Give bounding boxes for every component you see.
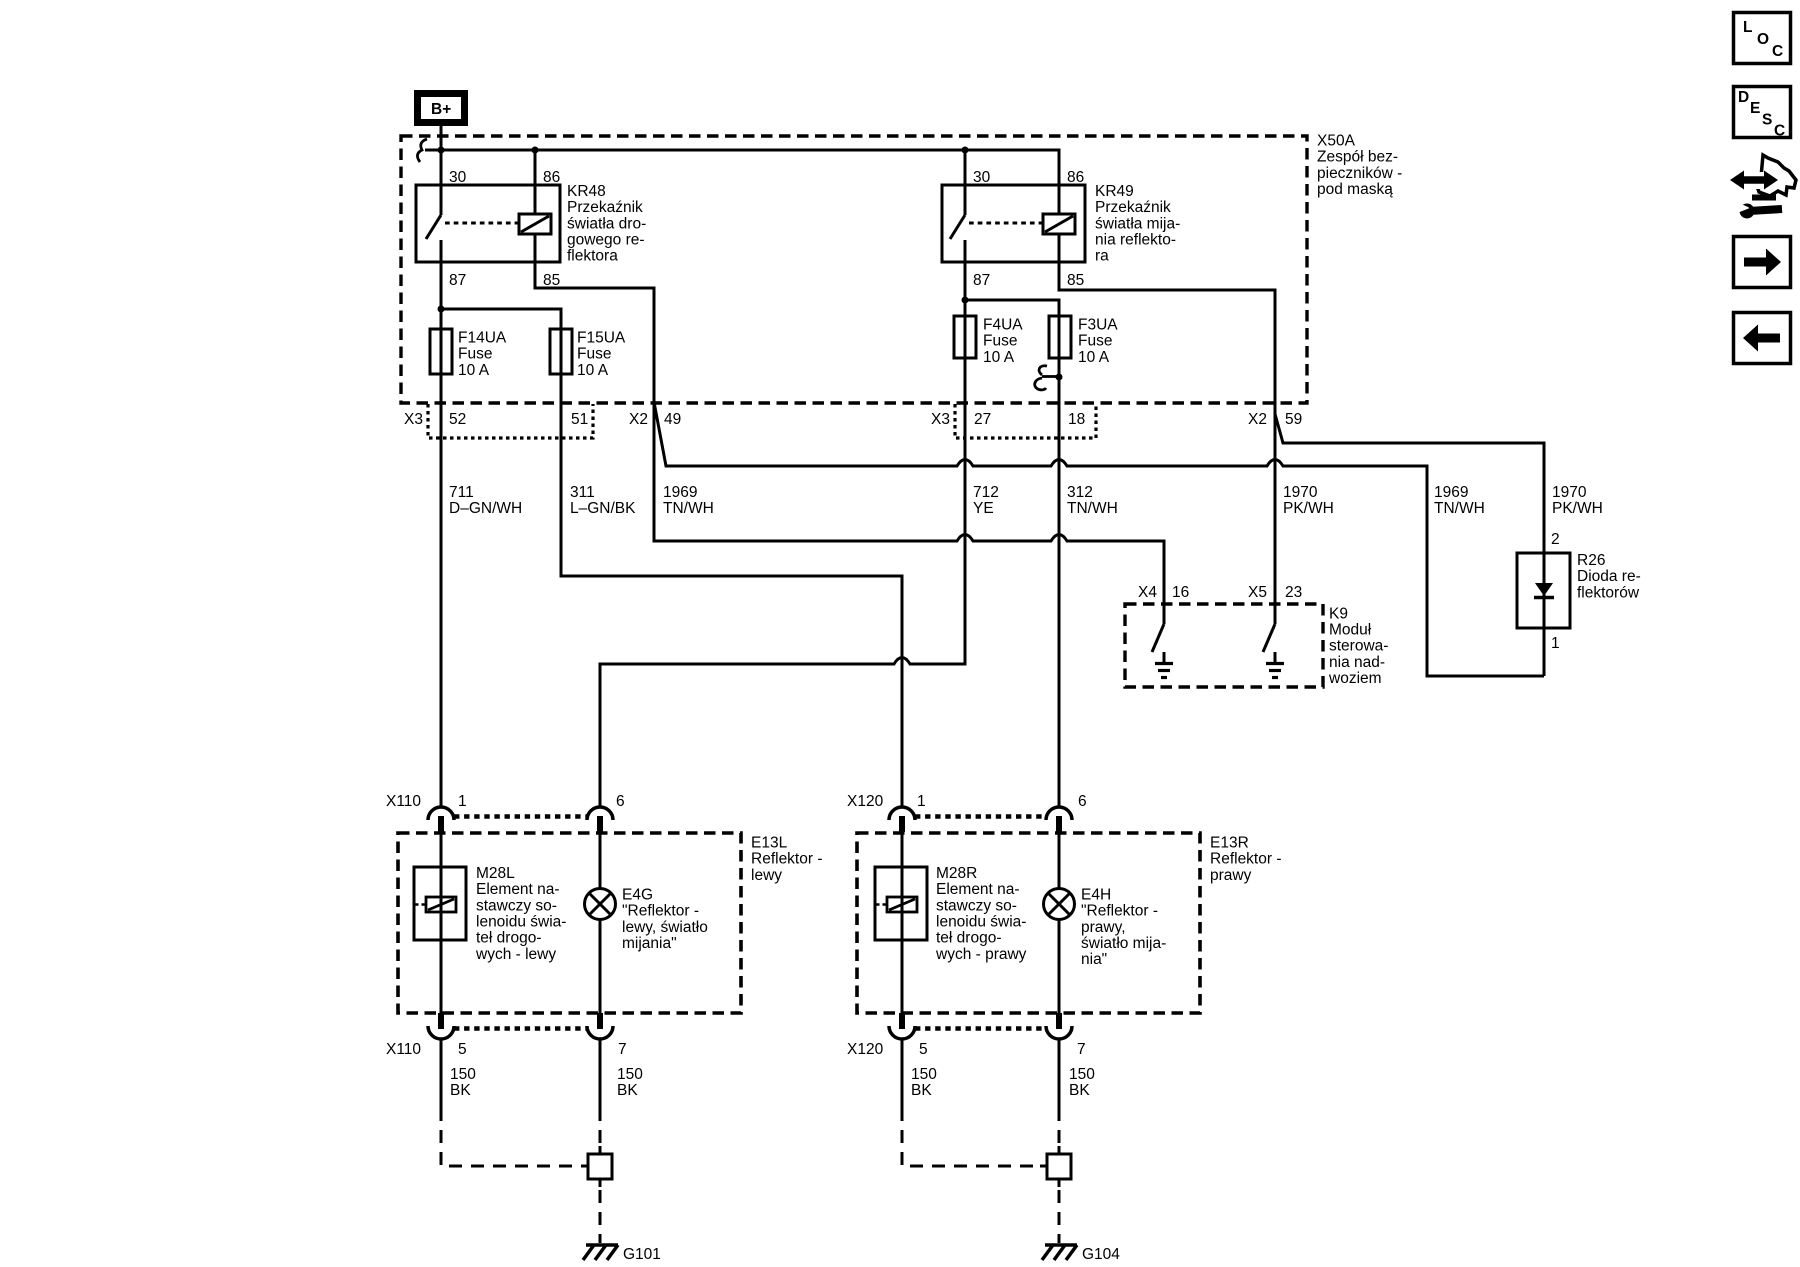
lamp E4H — [1044, 889, 1075, 920]
svg-text:Przekaźnik: Przekaźnik — [567, 199, 643, 216]
label K9 — [1328, 605, 1388, 687]
svg-text:światło mija-: światło mija- — [1081, 935, 1166, 952]
wire E4G column inside E13L — [599, 830, 602, 1013]
connector X110 pin 6 arc — [587, 807, 613, 820]
node KR49-87 / fuse branch — [962, 297, 969, 304]
label wire 711 D-GN/WH — [449, 484, 522, 517]
svg-text:KR48: KR48 — [567, 183, 606, 200]
label wire 712 YE — [973, 484, 999, 517]
connector X120 bottom pin 5 — [899, 1013, 905, 1029]
svg-text:51: 51 — [571, 411, 588, 428]
svg-text:10 A: 10 A — [1078, 349, 1110, 366]
connector X3 dotted box (52/51) — [428, 404, 593, 438]
svg-text:5: 5 — [458, 1041, 467, 1058]
label R26 — [1577, 552, 1641, 601]
ground symbol in K9 (X4) — [1155, 652, 1173, 678]
svg-text:18: 18 — [1068, 411, 1085, 428]
label wire 311 L-GN/BK — [570, 484, 636, 517]
svg-text:ra: ra — [1095, 248, 1109, 265]
label KR48 — [567, 183, 646, 265]
svg-text:16: 16 — [1172, 584, 1189, 601]
svg-text:mijania": mijania" — [622, 935, 677, 952]
label wire 150 BK (E4G ground) — [617, 1066, 643, 1099]
svg-text:stawczy so-: stawczy so- — [476, 897, 557, 914]
svg-text:X5: X5 — [1248, 584, 1267, 601]
wire B+ feed drop — [440, 124, 443, 150]
fuse block X50A dashed box — [401, 136, 1307, 403]
svg-text:312: 312 — [1067, 484, 1093, 501]
wire X2-49 pass-through diagonal / 1969 branch to R26 — [654, 402, 1544, 676]
wire X110-5 ground lead — [440, 1039, 443, 1108]
connector X120 bottom pin 7 — [1056, 1013, 1062, 1029]
switch in K9 at X5 — [1263, 624, 1275, 652]
svg-text:C: C — [1772, 43, 1783, 60]
svg-text:87: 87 — [449, 272, 466, 289]
svg-text:86: 86 — [1067, 169, 1084, 186]
svg-text:flektora: flektora — [567, 248, 618, 265]
fuse F14UA — [430, 329, 507, 379]
svg-text:K9: K9 — [1329, 605, 1348, 622]
wire X120-7 ground lead — [1058, 1039, 1061, 1108]
nav icon vehicle with wrench — [1730, 155, 1796, 219]
svg-text:sterowa-: sterowa- — [1329, 638, 1388, 655]
svg-text:59: 59 — [1285, 411, 1302, 428]
svg-text:Dioda re-: Dioda re- — [1577, 568, 1641, 585]
svg-text:Fuse: Fuse — [577, 346, 611, 363]
wire KR48-87 / 711 column — [440, 240, 443, 806]
svg-text:F4UA: F4UA — [983, 317, 1023, 334]
svg-text:nia reflekto-: nia reflekto- — [1095, 232, 1176, 249]
headlamp E13R dashed box — [857, 833, 1200, 1013]
wire dashed to splice (right M28R) — [902, 1108, 1043, 1166]
svg-text:30: 30 — [973, 169, 991, 186]
wire R26 pin 1 — [1543, 628, 1546, 676]
svg-text:Element na-: Element na- — [476, 881, 560, 898]
node bus/KR48-30 — [438, 147, 445, 154]
svg-text:1969: 1969 — [663, 484, 697, 501]
svg-text:30: 30 — [449, 169, 467, 186]
label wire 150 BK (M28L ground) — [450, 1066, 476, 1099]
diode R26 — [1517, 531, 1570, 652]
svg-text:E4H: E4H — [1081, 887, 1111, 904]
solenoid M28L — [414, 867, 466, 940]
svg-text:150: 150 — [450, 1066, 476, 1083]
svg-text:49: 49 — [664, 411, 681, 428]
svg-text:E4G: E4G — [622, 887, 653, 904]
wire X2-59 pass-through diagonal / 1970 to R26 pin 2 — [1275, 414, 1544, 553]
svg-text:Przekaźnik: Przekaźnik — [1095, 199, 1171, 216]
solenoid M28R — [875, 867, 927, 940]
wire X120-5 ground lead — [901, 1039, 904, 1108]
label wire 150 BK (M28R ground) — [911, 1066, 937, 1099]
svg-text:1: 1 — [917, 793, 926, 810]
svg-text:S: S — [1762, 112, 1772, 129]
svg-text:G101: G101 — [623, 1246, 661, 1263]
wire branch to F15UA / 311 column — [441, 309, 902, 806]
wire E4H column inside E13R — [1058, 830, 1061, 1013]
fuse F3UA — [1049, 316, 1118, 366]
svg-text:Reflektor -: Reflektor - — [1210, 851, 1282, 868]
svg-text:TN/WH: TN/WH — [663, 500, 714, 517]
label wire 1970 PK/WH right — [1552, 484, 1603, 517]
svg-text:85: 85 — [1067, 272, 1084, 289]
label wire 1970 PK/WH left — [1283, 484, 1334, 517]
svg-text:lewy: lewy — [751, 867, 782, 884]
wire dashed splice to G104 — [1058, 1190, 1061, 1243]
svg-text:E13R: E13R — [1210, 835, 1249, 852]
svg-text:B+: B+ — [431, 101, 451, 118]
svg-text:X4: X4 — [1138, 584, 1157, 601]
svg-text:wych - prawy: wych - prawy — [935, 946, 1027, 963]
svg-text:gowego re-: gowego re- — [567, 232, 645, 249]
connector X120 top row — [847, 793, 1087, 810]
svg-text:teł drogo-: teł drogo- — [936, 930, 1001, 947]
svg-text:85: 85 — [543, 272, 560, 289]
wire B+ bus — [425, 150, 1059, 214]
label connector row left — [404, 411, 681, 428]
svg-text:nia nad-: nia nad- — [1329, 654, 1385, 671]
connector X120 pin 6 arc — [1046, 807, 1072, 820]
splice symbol at bus start — [417, 139, 427, 162]
svg-text:PK/WH: PK/WH — [1552, 500, 1603, 517]
svg-text:6: 6 — [616, 793, 625, 810]
ground G104 — [1042, 1245, 1077, 1260]
svg-text:X2: X2 — [1248, 411, 1267, 428]
label M28L — [475, 865, 566, 963]
connector X120 pin 1 arc — [889, 807, 915, 820]
label E13R — [1210, 835, 1282, 884]
svg-text:X3: X3 — [931, 411, 950, 428]
svg-text:1970: 1970 — [1552, 484, 1587, 501]
svg-text:L: L — [1743, 19, 1752, 36]
svg-text:311: 311 — [570, 484, 595, 501]
switch in K9 at X4 — [1152, 624, 1164, 652]
svg-text:F14UA: F14UA — [458, 330, 507, 347]
relay KR48 — [416, 150, 560, 289]
svg-text:X3: X3 — [404, 411, 423, 428]
svg-text:KR49: KR49 — [1095, 183, 1134, 200]
svg-text:5: 5 — [919, 1041, 928, 1058]
svg-text:G104: G104 — [1082, 1246, 1120, 1263]
label connector X5 pin 23 — [1248, 584, 1302, 601]
svg-text:150: 150 — [617, 1066, 643, 1083]
svg-text:7: 7 — [1077, 1041, 1086, 1058]
svg-text:nia": nia" — [1081, 951, 1107, 968]
svg-text:M28R: M28R — [936, 865, 977, 882]
wire KR49-87 / 712 column — [600, 240, 965, 806]
label wire 312 TN/WH — [1067, 484, 1118, 517]
svg-text:X120: X120 — [847, 793, 884, 810]
svg-text:X110: X110 — [386, 793, 421, 810]
svg-text:światła mija-: światła mija- — [1095, 215, 1180, 232]
module K9 dashed box — [1125, 604, 1323, 687]
svg-text:BK: BK — [911, 1082, 932, 1099]
svg-text:1970: 1970 — [1283, 484, 1318, 501]
svg-text:TN/WH: TN/WH — [1434, 500, 1485, 517]
svg-text:"Reflektor -: "Reflektor - — [622, 903, 699, 920]
label connector X4 pin 16 — [1138, 584, 1189, 601]
svg-text:lenoidu świa-: lenoidu świa- — [476, 914, 566, 931]
wire branch to F3UA / 312 column — [965, 300, 1059, 806]
svg-text:23: 23 — [1285, 584, 1302, 601]
svg-text:7: 7 — [618, 1041, 627, 1058]
svg-text:6: 6 — [1078, 793, 1087, 810]
svg-text:flektorów: flektorów — [1577, 584, 1640, 601]
label connector X110 bottom row — [386, 1041, 627, 1058]
svg-text:Fuse: Fuse — [458, 346, 492, 363]
label wire 150 BK (E4H ground) — [1069, 1066, 1095, 1099]
svg-text:E13L: E13L — [751, 835, 788, 852]
svg-text:10 A: 10 A — [458, 362, 490, 379]
relay KR49 — [942, 150, 1085, 289]
svg-text:X110: X110 — [386, 1041, 421, 1058]
wire dashed splice to G101 — [599, 1190, 602, 1243]
svg-text:"Reflektor -: "Reflektor - — [1081, 903, 1158, 920]
svg-text:X120: X120 — [847, 1041, 884, 1058]
node KR48-87 / fuse branch — [438, 306, 445, 313]
svg-text:Reflektor -: Reflektor - — [751, 851, 823, 868]
label wire 1969 TN/WH right — [1434, 484, 1485, 517]
label E4H — [1081, 887, 1166, 969]
label connector X120 bottom row — [847, 1041, 1086, 1058]
splice block right — [1040, 1146, 1071, 1187]
label connector row right — [931, 411, 1302, 428]
svg-text:X2: X2 — [629, 411, 648, 428]
svg-text:światła dro-: światła dro- — [567, 215, 646, 232]
svg-text:YE: YE — [973, 500, 994, 517]
nav icon next arrow — [1734, 237, 1791, 288]
svg-text:712: 712 — [973, 484, 999, 501]
ground G101 — [583, 1245, 618, 1260]
node splice on 312 wire — [1056, 374, 1063, 381]
svg-text:711: 711 — [449, 484, 474, 501]
nav icon back arrow — [1734, 313, 1791, 364]
svg-text:prawy: prawy — [1210, 867, 1252, 884]
svg-text:pieczników -: pieczników - — [1317, 165, 1402, 182]
node bus/KR48-86 — [532, 147, 539, 154]
splice hook below F3UA — [1035, 366, 1047, 390]
svg-text:10 A: 10 A — [577, 362, 609, 379]
svg-text:stawczy so-: stawczy so- — [936, 897, 1017, 914]
svg-text:1969: 1969 — [1434, 484, 1468, 501]
connector X110 bottom dotted line — [454, 1026, 588, 1031]
svg-text:X50A: X50A — [1317, 133, 1356, 150]
wire KR48-85 / 1969 branch to K9 X4 — [535, 234, 1164, 624]
svg-text:E: E — [1750, 100, 1760, 117]
svg-text:27: 27 — [974, 411, 991, 428]
svg-text:BK: BK — [450, 1082, 471, 1099]
fuse F15UA — [550, 329, 626, 379]
headlamp E13L dashed box — [398, 833, 741, 1013]
wire M28R column inside E13R — [901, 830, 904, 1013]
svg-text:PK/WH: PK/WH — [1283, 500, 1334, 517]
svg-text:86: 86 — [543, 169, 560, 186]
connector X110 bottom pin 7 — [597, 1013, 603, 1029]
ground symbol in K9 (X5) — [1266, 652, 1284, 678]
fuse F4UA — [954, 316, 1023, 366]
terminal B+ — [418, 94, 465, 123]
svg-text:Fuse: Fuse — [1078, 333, 1112, 350]
svg-text:F15UA: F15UA — [577, 330, 626, 347]
wire KR49-85 / 1970 column to K9 X5 — [1059, 234, 1275, 624]
connector X110 top row — [386, 793, 625, 810]
svg-text:O: O — [1757, 31, 1769, 48]
svg-text:pod maską: pod maską — [1317, 181, 1393, 198]
connector X3 dotted box (27/18) — [955, 404, 1096, 438]
wire X110-7 ground lead — [599, 1039, 602, 1108]
wire dashed to splice (right E4H) — [1058, 1108, 1061, 1148]
svg-text:teł drogo-: teł drogo- — [476, 930, 541, 947]
svg-text:Moduł: Moduł — [1329, 622, 1372, 639]
svg-text:1: 1 — [458, 793, 467, 810]
svg-text:52: 52 — [449, 411, 466, 428]
connector X120 bottom dotted line — [915, 1026, 1046, 1031]
svg-text:lewy, światło: lewy, światło — [622, 919, 708, 936]
label E13L — [751, 835, 823, 884]
wire dashed to splice (left E4G) — [599, 1108, 602, 1148]
svg-text:2: 2 — [1551, 531, 1560, 548]
svg-text:10 A: 10 A — [983, 349, 1015, 366]
svg-text:D–GN/WH: D–GN/WH — [449, 500, 522, 517]
connector X110 bottom pin 5 — [438, 1013, 444, 1029]
label X50A — [1317, 133, 1402, 199]
svg-text:150: 150 — [911, 1066, 937, 1083]
svg-text:C: C — [1774, 123, 1785, 140]
svg-text:prawy,: prawy, — [1081, 919, 1126, 936]
lamp E4G — [585, 889, 616, 920]
svg-text:Fuse: Fuse — [983, 333, 1017, 350]
node bus/KR49-30 — [962, 147, 969, 154]
splice block left — [581, 1146, 612, 1187]
svg-text:87: 87 — [973, 272, 990, 289]
svg-text:L–GN/BK: L–GN/BK — [570, 500, 636, 517]
nav icon LOC box — [1734, 13, 1791, 64]
svg-text:D: D — [1738, 89, 1749, 106]
svg-text:F3UA: F3UA — [1078, 317, 1118, 334]
nav icon DESC box — [1734, 87, 1791, 140]
svg-text:woziem: woziem — [1328, 670, 1382, 687]
label E4G — [622, 887, 708, 953]
svg-text:lenoidu świa-: lenoidu świa- — [936, 914, 1026, 931]
svg-text:BK: BK — [1069, 1082, 1090, 1099]
svg-text:150: 150 — [1069, 1066, 1095, 1083]
svg-text:TN/WH: TN/WH — [1067, 500, 1118, 517]
label M28R — [935, 865, 1027, 963]
svg-text:R26: R26 — [1577, 552, 1605, 569]
svg-text:BK: BK — [617, 1082, 638, 1099]
connector X110 dotted line — [454, 814, 588, 819]
label KR49 — [1095, 183, 1180, 265]
connector X110 pin 1 arc — [428, 807, 454, 820]
wire dashed to splice (left M28L) — [441, 1108, 584, 1166]
svg-text:M28L: M28L — [476, 865, 515, 882]
svg-text:wych - lewy: wych - lewy — [475, 946, 556, 963]
svg-text:Element na-: Element na- — [936, 881, 1020, 898]
connector X120 dotted line — [915, 814, 1046, 819]
svg-text:Zespół bez-: Zespół bez- — [1317, 149, 1398, 166]
svg-text:1: 1 — [1551, 635, 1560, 652]
label wire 1969 TN/WH left — [663, 484, 714, 517]
wire M28L column inside E13L — [440, 830, 443, 1013]
